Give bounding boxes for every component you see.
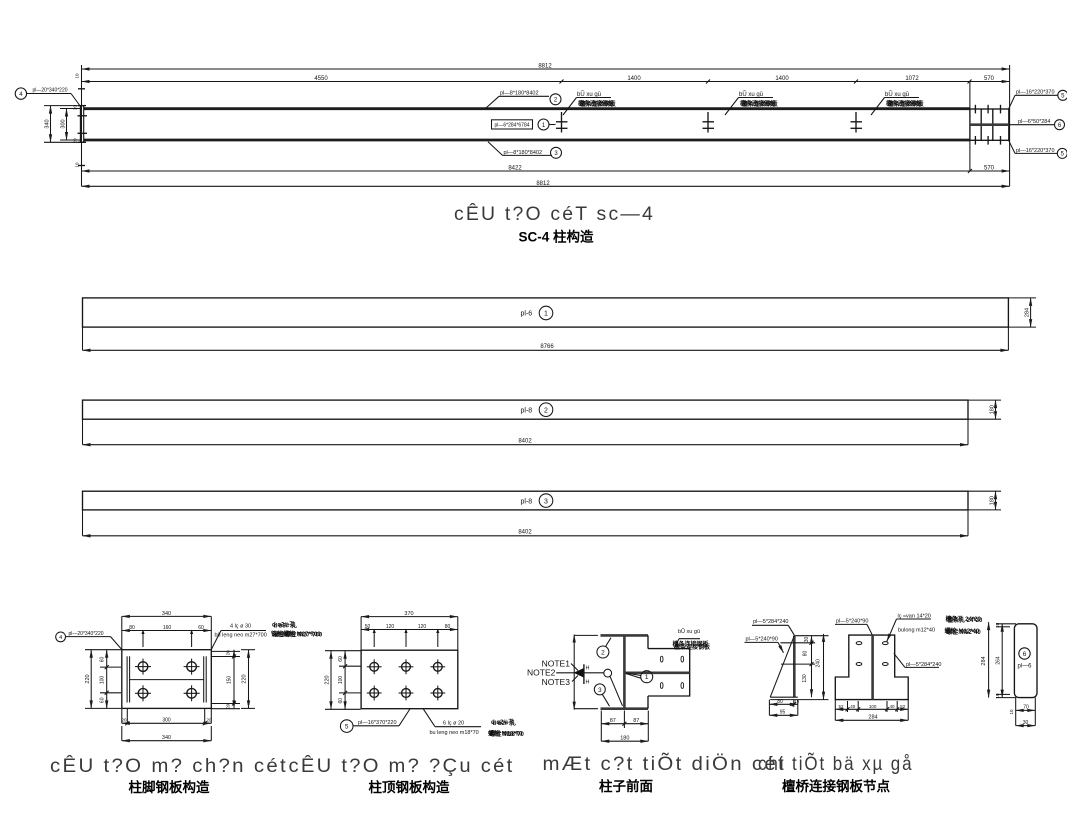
gusset hypotenuse [770, 636, 794, 698]
callout 5 pl-16*220*370 bottom [1009, 140, 1067, 158]
svg-text:80: 80 [445, 624, 451, 630]
d3 NOTE texts [527, 658, 570, 687]
svg-text:柱子前面: 柱子前面 [599, 778, 653, 794]
svg-text:80: 80 [803, 651, 809, 657]
svg-text:cÊU t?O m? ?Çu cét: cÊU t?O m? ?Çu cét [289, 754, 515, 777]
svg-text:8422: 8422 [508, 166, 522, 172]
svg-text:pl-8: pl-8 [521, 407, 533, 414]
svg-text:60: 60 [99, 657, 105, 663]
d4c left dim 284 [981, 622, 989, 698]
svg-text:pl-6: pl-6 [521, 311, 533, 318]
svg-text:8812: 8812 [536, 181, 550, 187]
svg-text:60: 60 [99, 697, 105, 703]
d3 weld symbol [556, 664, 604, 686]
svg-text:120: 120 [418, 624, 427, 630]
svg-text:5: 5 [1061, 94, 1065, 100]
svg-text:100: 100 [338, 676, 344, 685]
gusset tick lines [780, 642, 815, 644]
svg-text:150: 150 [226, 676, 232, 685]
callout 2 pl-8*180*8402 [486, 91, 561, 109]
svg-text:284: 284 [981, 656, 987, 665]
dim 340 left [44, 106, 80, 143]
svg-text:20: 20 [226, 703, 231, 709]
svg-text:檀条连接钢板: 檀条连接钢板 [674, 643, 711, 651]
d1 top dim 340 [122, 611, 212, 650]
d4c inner dim 264 [995, 622, 1016, 698]
svg-text:4550: 4550 [314, 76, 328, 82]
d1 bottom chain 20/300/20 [121, 708, 212, 725]
svg-text:d ø3# 孔: d ø3# 孔 [274, 621, 297, 629]
d1 callout 4 pl-20*340*220 [56, 631, 122, 650]
dim chain 4550/1400/1400/1072/570 [82, 76, 1010, 84]
svg-text:檀条连接钢板: 檀条连接钢板 [580, 100, 617, 108]
svg-text:40: 40 [850, 704, 856, 709]
svg-text:1: 1 [544, 311, 548, 318]
svg-text:bŨ xu gū: bŨ xu gū [739, 91, 763, 98]
svg-text:2: 2 [554, 98, 558, 104]
svg-text:8812: 8812 [538, 64, 552, 70]
svg-text:570: 570 [984, 166, 995, 172]
svg-text:4: 4 [19, 92, 23, 98]
svg-text:2: 2 [544, 407, 548, 414]
bolt hole r1c3 [430, 659, 445, 674]
svg-text:87: 87 [633, 718, 639, 724]
svg-text:6: 6 [1023, 651, 1027, 658]
svg-text:6 lç ø 20: 6 lç ø 20 [443, 721, 464, 727]
svg-text:pl—20*340*220: pl—20*340*220 [33, 88, 68, 94]
d3 weld circle [604, 669, 623, 706]
d3 callout 1 [626, 671, 653, 683]
anchor hole 2 [184, 659, 200, 675]
d4c bottom dim 30 [1016, 720, 1036, 726]
svg-text:300: 300 [162, 718, 171, 724]
svg-text:lç «van 14*20: lç «van 14*20 [898, 613, 931, 619]
svg-text:SC-4 柱构造: SC-4 柱构造 [518, 229, 594, 245]
dim 300 left [60, 109, 80, 141]
T plate outline [835, 635, 908, 700]
callout 4 pl-20*340*220 [15, 88, 80, 107]
d3 height dim line [574, 635, 598, 710]
svg-text:2: 2 [601, 650, 605, 657]
d3 slot hole 1 [660, 656, 663, 662]
svg-text:240: 240 [816, 659, 822, 668]
H section web [130, 679, 204, 681]
d4a right chain 30/80/130 [802, 636, 814, 698]
plate 1 length dim 8766 [83, 327, 1009, 350]
plate 1 pl-6 [83, 298, 1009, 327]
d1 left dim 220 [85, 650, 121, 709]
svg-text:20: 20 [73, 105, 78, 111]
svg-text:20: 20 [73, 138, 78, 144]
d3 slot hole 4 [681, 683, 684, 689]
svg-text:pl—16*220*370: pl—16*220*370 [1016, 90, 1055, 96]
right end bracket plates 5 [970, 105, 1009, 145]
svg-text:3: 3 [598, 687, 602, 694]
svg-text:95: 95 [780, 710, 786, 716]
d2 callout 5 pl-16*370*220 [340, 709, 410, 732]
gusset base [770, 696, 798, 698]
svg-text:cÊU t?O m? ch?n cét: cÊU t?O m? ch?n cét [50, 754, 288, 777]
plate 3 pl-8 [83, 491, 969, 510]
d4b bold labels [945, 615, 984, 636]
svg-text:5: 5 [1061, 152, 1065, 158]
svg-text:10: 10 [995, 693, 1000, 699]
svg-text:10: 10 [75, 73, 80, 79]
svg-text:60: 60 [338, 656, 344, 662]
svg-text:8402: 8402 [518, 439, 532, 445]
slot hole b1 [856, 642, 862, 645]
svg-text:4: 4 [59, 635, 62, 641]
dim line 8422/570 [82, 166, 1010, 174]
slot hole b4 [883, 663, 889, 666]
plate 3 length dim 8402 [83, 510, 969, 536]
d2 left chain 60/100/60 [338, 651, 361, 710]
extension line bracket start [969, 82, 971, 110]
svg-text:NOTE2: NOTE2 [527, 668, 556, 678]
svg-text:pl-8: pl-8 [521, 498, 533, 505]
d3 callout 2 [597, 638, 611, 658]
svg-text:20: 20 [206, 717, 212, 722]
bolt hole r2c3 [430, 686, 445, 701]
svg-text:檀条连接钢板: 檀条连接钢板 [888, 100, 925, 108]
d4b bottom chain 52/40/100/40/52 [835, 700, 908, 721]
svg-text:80: 80 [777, 699, 783, 705]
d3 purlin plate outline [648, 649, 690, 696]
svg-text:340: 340 [45, 119, 51, 128]
d4b label lc ovan 14*20 [887, 613, 931, 641]
svg-text:8402: 8402 [518, 530, 532, 536]
d2 left dim 220 [325, 651, 361, 710]
d4b label pl-5*240*90 [835, 618, 872, 635]
plate 1 width dim 284 [1008, 298, 1036, 327]
svg-text:264: 264 [996, 656, 1002, 665]
svg-text:柱顶钢板构造: 柱顶钢板构造 [369, 779, 450, 795]
svg-text:chi tiÕt bä xµ gå: chi tiÕt bä xµ gå [758, 751, 914, 775]
web splice symbol 3 [851, 112, 863, 133]
svg-text:pl—5*240*90: pl—5*240*90 [746, 636, 778, 642]
svg-text:40: 40 [889, 704, 895, 709]
anchor hole 3 [135, 685, 151, 701]
d4b label pl-5*284*240 [894, 653, 942, 668]
svg-text:bŨ xu gū: bŨ xu gū [885, 91, 909, 98]
svg-text:100: 100 [99, 676, 105, 685]
d4c bottom chain 70 [1009, 698, 1035, 726]
pl-6 callout 6 [1017, 648, 1032, 670]
dim line 8812 bottom [82, 181, 1010, 187]
anchor hole 1 [135, 659, 151, 675]
svg-text:100: 100 [869, 704, 877, 709]
H section right flange [203, 656, 205, 702]
svg-text:bŨ xu gū: bŨ xu gū [678, 628, 700, 635]
svg-text:5: 5 [345, 724, 349, 731]
svg-text:檀条连接钢板: 檀条连接钢板 [742, 100, 779, 108]
web splice symbol 2 [703, 112, 715, 133]
extension line right [1009, 65, 1011, 186]
svg-text:pl—6*284*6784: pl—6*284*6784 [494, 122, 529, 128]
svg-text:70: 70 [1023, 705, 1029, 711]
svg-text:220: 220 [85, 674, 91, 683]
svg-text:180: 180 [989, 496, 995, 505]
svg-text:370: 370 [404, 611, 413, 617]
slot hole b3 [856, 663, 862, 666]
slot hole b2 [883, 642, 889, 645]
svg-text:pl—5*284*240: pl—5*284*240 [753, 619, 788, 625]
d4a label pl-5*240*90 [745, 636, 784, 653]
d4a right dim 240 [816, 634, 824, 700]
svg-text:10: 10 [75, 162, 80, 168]
bolt hole r1c2 [399, 659, 414, 674]
anchor hole 4 [184, 685, 200, 701]
svg-text:1400: 1400 [627, 76, 641, 82]
svg-text:bulong m12*40: bulong m12*40 [898, 627, 935, 633]
d2 top dim 370 [361, 611, 458, 650]
d3 slot hole 3 [660, 683, 663, 689]
d1 top chain 80/160/60 [122, 625, 212, 647]
d3 slot hole 2 [681, 656, 684, 662]
svg-text:pl—5*240*90: pl—5*240*90 [836, 618, 868, 624]
svg-text:bŨ xu gū: bŨ xu gū [577, 91, 601, 98]
d2 top chain 50/120/120/80 [361, 624, 458, 647]
svg-text:H: H [586, 666, 590, 672]
d3 bottom chain 87/87 [601, 711, 648, 742]
svg-text:1: 1 [542, 123, 546, 129]
web splice symbol 1 [556, 112, 568, 133]
svg-text:180: 180 [620, 736, 629, 742]
svg-text:pl—6*50*284: pl—6*50*284 [1018, 119, 1050, 125]
svg-text:220: 220 [325, 675, 331, 684]
top plate outline [361, 650, 458, 709]
svg-text:340: 340 [162, 611, 171, 617]
web plate 6 center line [970, 123, 1009, 126]
dim line 8812 top [82, 64, 1010, 70]
end plate 4 left [80, 106, 83, 143]
plate 3 width dim 180 [968, 491, 1001, 510]
svg-text:bũ lẹng neo m27*700: bũ lẹng neo m27*700 [215, 633, 267, 639]
d4a label pl-5*284*240 [752, 619, 794, 635]
svg-text:160: 160 [163, 625, 172, 631]
callout 5 pl-16*220*370 top [1009, 90, 1067, 110]
base plate outline [122, 650, 212, 709]
bottom flange plate 3 [84, 139, 970, 142]
svg-text:10: 10 [995, 622, 1000, 628]
d4a bottom dim 95 [769, 710, 797, 716]
svg-text:檀桥连接钢板节点: 檀桥连接钢板节点 [782, 778, 890, 794]
bolt hole r2c1 [367, 686, 382, 701]
d2 bolt label [423, 709, 524, 738]
svg-text:3: 3 [544, 498, 548, 505]
svg-text:1: 1 [645, 674, 649, 681]
d4a bottom chain 80/15 [769, 699, 799, 716]
svg-text:570: 570 [984, 76, 995, 82]
top flange plate 2 [84, 107, 970, 110]
svg-text:mÆt c?t tiÕt diÖn cét: mÆt c?t tiÕt diÖn cét [543, 751, 787, 775]
d1 anchor bolt label [211, 621, 323, 650]
svg-text:柱脚钢板构造: 柱脚钢板构造 [129, 779, 210, 795]
svg-text:1400: 1400 [775, 76, 789, 82]
svg-text:80: 80 [129, 625, 135, 631]
plate 2 pl-8 [83, 400, 969, 419]
H section left flange [126, 656, 128, 702]
svg-text:284: 284 [1024, 308, 1030, 317]
svg-text:檀条孔 24*20: 檀条孔 24*20 [947, 616, 983, 624]
pl-6 plate outline [1014, 624, 1037, 698]
svg-text:60: 60 [198, 625, 204, 631]
svg-text:cÊU t?O céT sc—4: cÊU t?O céT sc—4 [454, 202, 655, 225]
svg-text:4 lç ø 30: 4 lç ø 30 [230, 623, 251, 629]
svg-text:15: 15 [794, 699, 800, 704]
plate 2 length dim 8402 [83, 419, 969, 445]
d3 plate center line [625, 671, 689, 674]
d1 right dim 220 [241, 650, 255, 709]
stiffener label 3 bu xu gu [871, 91, 925, 115]
d1 left chain 60/100/60 [99, 650, 121, 709]
plate 2 width dim 180 [968, 400, 1001, 419]
svg-text:60: 60 [338, 698, 344, 704]
svg-text:pl—6: pl—6 [1017, 664, 1032, 670]
d3 callout 3 [594, 684, 609, 706]
svg-text:220: 220 [242, 674, 248, 683]
svg-text:螺栓:M12*40: 螺栓:M12*40 [946, 628, 981, 636]
gusset plate edge [793, 636, 796, 698]
svg-text:52: 52 [838, 704, 844, 709]
d4b bottom dim 284 [835, 715, 908, 721]
callout 3 pl-8*180*8402 [488, 142, 562, 159]
svg-text:pl—8*180*8402: pl—8*180*8402 [500, 91, 539, 97]
svg-text:锚栓螺栓 M27*700: 锚栓螺栓 M27*700 [273, 631, 323, 639]
svg-text:180: 180 [989, 405, 995, 414]
d3 web [623, 635, 626, 708]
d3 bu xu gu label [673, 628, 712, 651]
T plate joint line [871, 635, 874, 700]
extension line left [81, 65, 83, 186]
stiffener label 2 bu xu gu [725, 91, 779, 115]
callout 6 pl-6*50*284 [1009, 119, 1065, 130]
svg-text:6: 6 [1058, 123, 1062, 129]
svg-text:1072: 1072 [905, 76, 919, 82]
svg-text:d ø2# 孔: d ø2# 孔 [493, 719, 516, 727]
d3 bottom dim 180 [601, 736, 648, 742]
bolt hole r1c1 [367, 659, 382, 674]
svg-text:284: 284 [868, 715, 877, 721]
svg-text:NOTE3: NOTE3 [542, 677, 571, 687]
svg-text:340: 340 [162, 735, 171, 741]
svg-text:300: 300 [61, 119, 67, 128]
d3 top flange [601, 634, 649, 637]
svg-text:52: 52 [900, 704, 906, 709]
d3 bottom flange [601, 707, 649, 710]
svg-text:87: 87 [610, 718, 616, 724]
svg-text:20: 20 [121, 717, 127, 722]
svg-text:50: 50 [365, 624, 371, 630]
d1 right chain 20/150/20 [212, 650, 240, 709]
svg-text:30: 30 [804, 637, 810, 643]
svg-text:20: 20 [226, 650, 231, 656]
stiffener label 1 bu xu gu [563, 91, 617, 115]
svg-text:10: 10 [1009, 709, 1014, 715]
svg-text:30: 30 [1023, 720, 1029, 726]
bolt hole r2c2 [399, 686, 414, 701]
svg-text:螺栓 M18*70: 螺栓 M18*70 [490, 730, 525, 738]
d3 right face [647, 635, 649, 648]
svg-text:8766: 8766 [540, 344, 554, 350]
svg-text:bu leng neo m18*70: bu leng neo m18*70 [430, 730, 479, 736]
svg-text:120: 120 [386, 624, 395, 630]
callout 1 pl-6*284*6784 boxed [492, 119, 556, 130]
svg-text:130: 130 [802, 674, 808, 683]
svg-text:3: 3 [554, 151, 558, 157]
svg-text:H: H [586, 680, 590, 686]
d1 bottom dim 340 [122, 726, 212, 741]
